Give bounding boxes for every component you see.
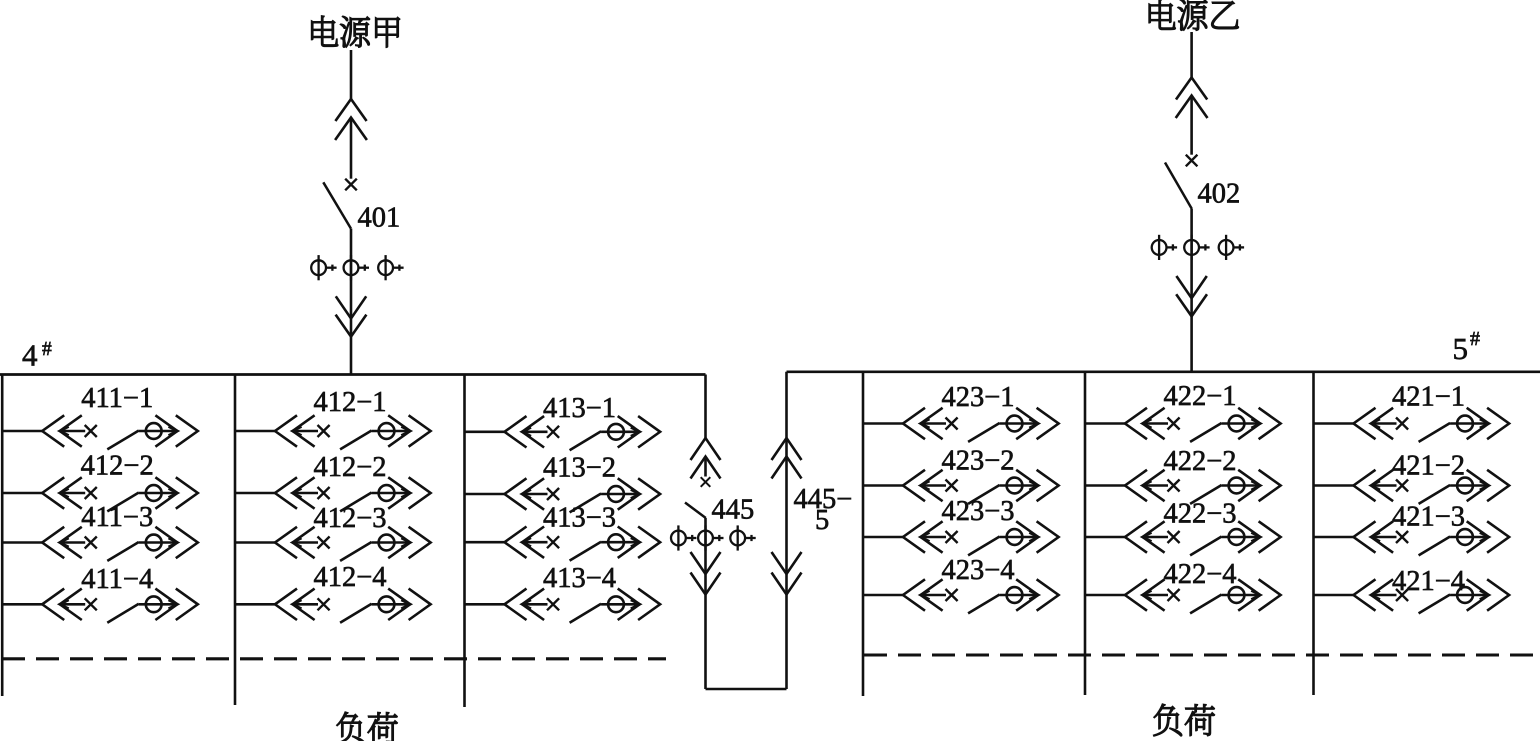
withdrawable breaker 412−4 [275,589,431,623]
CT middle of 401 [344,255,369,280]
svg-text:412−2: 412−2 [313,452,386,483]
svg-text:401: 401 [358,203,401,234]
svg-text:421−3: 421−3 [1392,502,1465,533]
CT right of 402 [1219,235,1244,260]
CT middle of 445 [698,525,723,550]
CT right of 401 [378,255,403,280]
drawout contact lower of breaker 401 (double chevron) [336,296,367,336]
wire stub feeder 421−1 [1314,422,1354,425]
wire stub feeder 412−3 [235,541,275,544]
wire stub feeder 413−4 [465,603,505,606]
wire chevron to breaker 402 [1190,96,1193,155]
withdrawable breaker 422−2 [1125,470,1281,504]
svg-text:423−1: 423−1 [941,382,1014,413]
svg-text:413−2: 413−2 [543,453,616,484]
disconnector 445-5 upper double chevron [772,438,802,479]
svg-text:5: 5 [1453,331,1469,366]
label source A: 电源甲 [312,16,400,47]
withdrawable breaker 421−3 [1354,521,1510,555]
svg-text:4: 4 [22,338,38,373]
svg-text:422−4: 422−4 [1163,559,1236,590]
wire stub feeder 421−2 [1314,484,1354,487]
wire stub feeder 421−4 [1314,594,1354,597]
dashed load boundary left [2,657,666,660]
label source B: 电源乙 [1149,0,1239,30]
wire stub feeder 423−1 [863,422,903,425]
withdrawable breaker 411−1 [42,415,198,449]
withdrawable breaker 412−3 [275,527,431,561]
wire stub feeder 411−3 [2,541,42,544]
wire stub feeder 413−3 [465,541,505,544]
wire stub feeder 412−1 [235,430,275,433]
withdrawable breaker 421−4 [1354,579,1510,613]
wire stub feeder 423−2 [863,484,903,487]
svg-text:423−4: 423−4 [941,555,1014,586]
svg-text:412−3: 412−3 [313,503,386,534]
wire chevron to breaker 401 [350,118,353,179]
svg-text:402: 402 [1198,179,1241,210]
withdrawable breaker 413−1 [505,416,661,450]
svg-text:#: # [42,339,52,360]
withdrawable breaker 422−3 [1125,521,1281,555]
disconnector 445-5 lower double chevron [772,552,802,595]
wire source A lead-in [350,50,353,99]
breaker 445 blade [685,503,706,519]
label load right: 负荷 [1154,704,1215,736]
wire left border of column 423 [862,372,865,696]
drawout contact upper of breaker 401 (double chevron) [335,99,367,140]
withdrawable breaker 421−1 [1354,408,1510,442]
drawout contact upper of tie breaker 445 (double chevron) [691,438,721,479]
wire stub feeder 421−3 [1314,536,1354,539]
wire tie bottom jumper [706,688,787,691]
wire partition between 423/422 [1084,372,1087,695]
wire disconnector 445-5 riser to bus 5# [785,372,788,689]
withdrawable breaker 413−4 [505,589,661,623]
wire stub feeder 413−2 [465,493,505,496]
svg-text:421−1: 421−1 [1392,382,1465,413]
withdrawable breaker 423−1 [903,408,1059,442]
wire partition between 412/413 [463,375,466,708]
drawout contact lower of tie breaker 445 (double chevron) [691,552,721,595]
svg-text:422−3: 422−3 [1163,499,1236,530]
withdrawable breaker 423−3 [903,521,1059,555]
svg-text:412−1: 412−1 [313,387,386,418]
svg-text:423−3: 423−3 [941,496,1014,527]
CT left of 401 [311,255,336,280]
wire stub feeder 411−1 [2,430,42,433]
withdrawable breaker 413−3 [505,527,661,561]
svg-text:#: # [1470,328,1480,350]
wire breaker 402 to bus [1190,209,1193,372]
breaker 402 fixed contact x [1186,155,1198,167]
breaker 445 fixed contact x [701,477,711,487]
withdrawable breaker 422−1 [1125,408,1281,442]
wire stub feeder 413−1 [465,430,505,433]
wire breaker 401 to bus [350,229,353,375]
CT middle of 402 [1184,235,1209,260]
svg-text:413−4: 413−4 [543,563,616,594]
wire left border of column 411 [1,375,4,697]
wire 445 chevron to contact [704,457,707,477]
bus 4# (left busbar) [0,373,706,376]
CT right of 445 [730,525,755,550]
withdrawable breaker 423−4 [903,579,1059,613]
svg-text:422−2: 422−2 [1163,446,1236,477]
wire source B lead-in [1190,32,1193,78]
wire stub feeder 412−4 [235,603,275,606]
breaker 402 blade [1165,163,1192,210]
svg-text:413−1: 413−1 [543,393,616,424]
wire stub feeder 422−3 [1085,536,1125,539]
CT left of 402 [1152,235,1177,260]
wire stub feeder 411−4 [2,603,42,606]
withdrawable breaker 413−2 [505,478,661,512]
withdrawable breaker 412−2 [42,477,198,511]
svg-text:411−3: 411−3 [81,502,153,533]
svg-text:411−4: 411−4 [81,564,153,595]
wire partition between 411/412 [234,375,237,706]
svg-text:421−4: 421−4 [1392,566,1465,597]
wire stub feeder 423−4 [863,594,903,597]
withdrawable breaker 412−2 [275,477,431,511]
svg-text:421−2: 421−2 [1392,451,1465,482]
breaker 401 blade [323,182,351,228]
withdrawable breaker 412−1 [275,415,431,449]
wire bus 4# down to tie breaker 445 [704,375,707,439]
svg-text:422−1: 422−1 [1163,381,1236,412]
withdrawable breaker 411−3 [42,527,198,561]
wire stub feeder 422−4 [1085,594,1125,597]
withdrawable breaker 411−4 [42,589,198,623]
CT left of 445 [671,525,696,550]
svg-text:5: 5 [815,505,829,536]
withdrawable breaker 421−2 [1354,470,1510,504]
svg-text:445: 445 [712,495,755,526]
bus 5# (right busbar) [787,370,1540,373]
svg-text:413−3: 413−3 [543,503,616,534]
breaker 401 fixed contact x [345,179,357,191]
drawout contact upper of breaker 402 (double chevron) [1176,78,1208,119]
wire stub feeder 422−2 [1085,484,1125,487]
withdrawable breaker 422−4 [1125,579,1281,613]
svg-text:411−1: 411−1 [81,383,153,414]
wire partition between 422/421 [1312,372,1315,695]
withdrawable breaker 423−2 [903,470,1059,504]
wire stub feeder 423−3 [863,536,903,539]
wire stub feeder 412−2 [235,492,275,495]
wire stub feeder 412−2 [2,492,42,495]
drawout contact lower of breaker 402 (double chevron) [1176,276,1207,316]
label load left: 负荷 [336,712,397,741]
svg-text:423−2: 423−2 [941,446,1014,477]
dashed load boundary right [864,653,1540,656]
wire 445 blade through CTs to tie bottom [704,518,707,689]
svg-text:412−2: 412−2 [81,451,154,482]
svg-text:412−4: 412−4 [313,562,386,593]
wire stub feeder 422−1 [1085,422,1125,425]
